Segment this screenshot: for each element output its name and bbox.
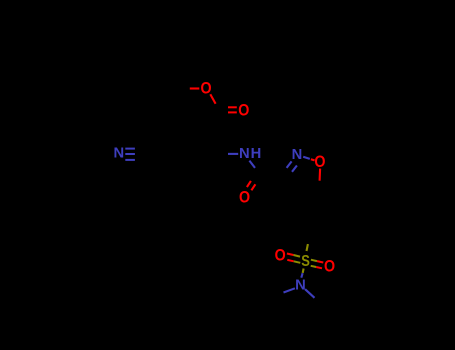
ester C=O line 2 <box>228 111 237 113</box>
bond N-methyl left (N half) <box>284 288 295 292</box>
bond S-N (N half) <box>301 273 302 278</box>
S=O right line1 (O half) <box>317 261 323 262</box>
svg-text:O: O <box>324 258 335 276</box>
bond O-carbonyl C (O half) <box>210 94 215 104</box>
amide C=O line 1 (O half) <box>247 181 251 187</box>
svg-text:S: S <box>301 253 310 270</box>
svg-text:O: O <box>275 247 286 265</box>
bond N-O (N half) <box>303 157 310 159</box>
svg-text:O: O <box>239 189 250 207</box>
bond ring-O (O half) <box>190 87 200 89</box>
S=O left line1 (O half) <box>287 254 294 256</box>
S=O right line2 (S half) <box>311 266 317 267</box>
svg-text:O: O <box>238 102 249 120</box>
S=O right line2 (O half) <box>316 267 322 268</box>
amide C=O line 2 (O half) <box>251 184 255 190</box>
svg-text:H: H <box>251 145 262 162</box>
bond N-methyl right (N half) <box>305 289 314 298</box>
bond ring-NH (N half) <box>228 153 238 155</box>
bond C4-S (S half) <box>307 244 308 251</box>
cyano triple bond line 1 <box>125 148 135 150</box>
S=O right line1 (S half) <box>311 260 317 261</box>
bond N-O (O half) <box>311 159 315 160</box>
bond S-N (S half) <box>302 269 305 273</box>
cyano triple bond line 2 <box>125 153 135 155</box>
svg-text:N: N <box>295 276 306 293</box>
ester C=O line 1 <box>228 106 237 108</box>
bond C3=N outer line (N half) <box>287 161 292 168</box>
bond C3=N inner line (N half) <box>292 166 297 172</box>
S=O left line1 (S half) <box>294 255 301 257</box>
bond NH-amide C (N half) <box>249 161 255 168</box>
svg-text:N: N <box>113 144 124 161</box>
S=O left line2 (O half) <box>287 260 293 261</box>
bond O-C5 (O half) <box>319 169 322 181</box>
svg-text:N: N <box>292 146 303 163</box>
svg-text:N: N <box>239 145 250 162</box>
S=O left line2 (S half) <box>294 261 301 263</box>
cyano triple bond line 3 <box>125 159 135 161</box>
